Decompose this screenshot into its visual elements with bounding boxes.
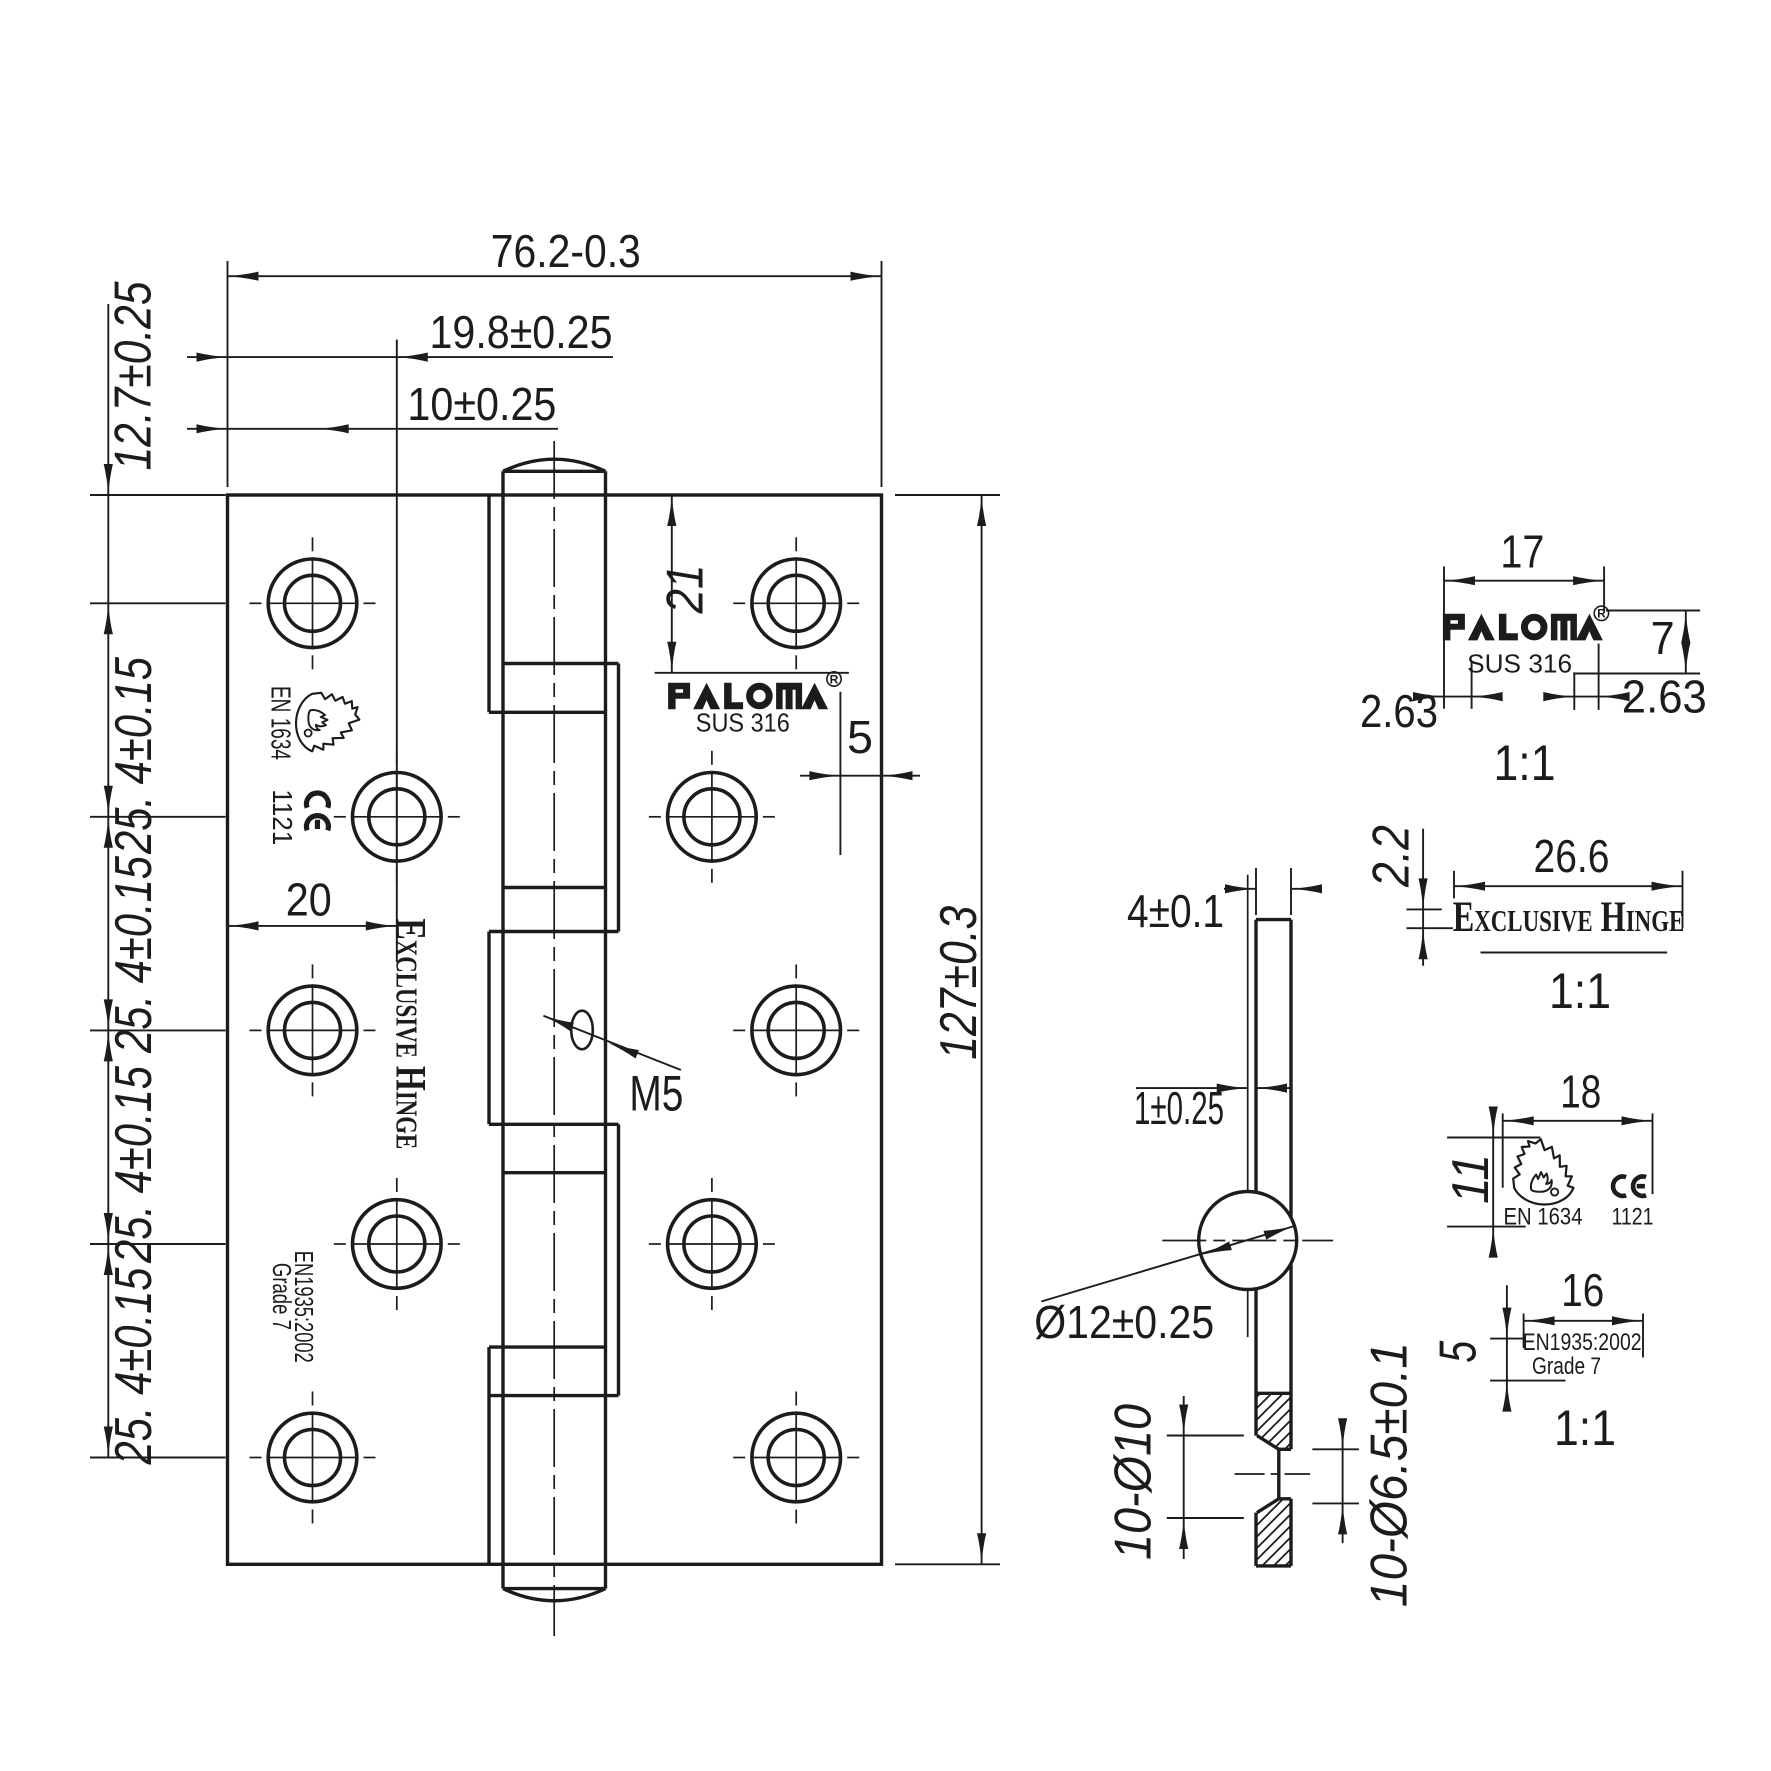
- EXCLUSIVE HINGE detail: [1453, 894, 1685, 942]
- svg-text:25. 4±0.15: 25. 4±0.15: [105, 855, 163, 1054]
- dimension 11: [1447, 1137, 1540, 1139]
- svg-text:7: 7: [1651, 612, 1675, 664]
- svg-text:1:1: 1:1: [1549, 963, 1611, 1019]
- svg-text:17: 17: [1500, 526, 1544, 578]
- dimension 2.63 left: [1471, 662, 1473, 708]
- dimension 2.2: [1407, 908, 1442, 910]
- svg-text:1121: 1121: [1612, 1203, 1654, 1230]
- left leaf cutout edge middle: [487, 932, 490, 1125]
- svg-text:EN1935:2002: EN1935:2002: [1523, 1329, 1642, 1356]
- dimension 1±0.25: [1136, 1087, 1248, 1089]
- screw hole row5 left: [268, 1413, 357, 1502]
- hinge pin top cap: [503, 459, 606, 471]
- svg-text:127±0.3: 127±0.3: [930, 906, 988, 1060]
- screw hole row4 right: [668, 1200, 757, 1289]
- hatch upper region: [1141, 1385, 1499, 1455]
- underline: [1481, 952, 1668, 954]
- hinge front view: plate outline: [228, 495, 882, 1564]
- countersink break line: [1256, 1392, 1291, 1395]
- svg-text:M5: M5: [629, 1066, 683, 1122]
- svg-text:Exclusive Hinge: Exclusive Hinge: [386, 918, 434, 1149]
- dimension 5: [839, 692, 841, 855]
- dimension 10-Ø10: [1167, 1435, 1244, 1437]
- svg-text:12.7±0.25: 12.7±0.25: [105, 281, 163, 471]
- svg-text:11: 11: [1442, 1154, 1500, 1204]
- svg-text:1:1: 1:1: [1554, 1400, 1616, 1456]
- svg-text:18: 18: [1560, 1066, 1601, 1118]
- dimension Ø12±0.25 leader: [1041, 1226, 1294, 1302]
- svg-text:2.2: 2.2: [1363, 825, 1421, 888]
- dimension 2.63 right: [1573, 672, 1575, 710]
- left leaf cutout edge bottom: [487, 1347, 490, 1564]
- M5 leader line: [543, 1016, 681, 1070]
- side view: knuckle centerline horizontal: [1162, 1240, 1333, 1242]
- svg-text:2.63: 2.63: [1622, 670, 1707, 722]
- svg-text:Grade 7: Grade 7: [267, 1263, 297, 1330]
- hole cylinder: [1277, 1449, 1280, 1499]
- dimension 20: [229, 925, 397, 927]
- svg-text:5: 5: [847, 711, 873, 763]
- registered mark: [827, 672, 841, 687]
- screw hole row1 left: [268, 559, 357, 648]
- svg-text:26.6: 26.6: [1534, 830, 1610, 882]
- dimension 7: [1606, 610, 1700, 612]
- pin centerline: [553, 441, 555, 1636]
- svg-text:Exclusive Hinge: Exclusive Hinge: [1453, 894, 1685, 942]
- svg-text:1121: 1121: [267, 789, 298, 845]
- plate-top extension left: [90, 494, 226, 496]
- svg-text:20: 20: [286, 874, 332, 926]
- dimension 5 detail: [1490, 1338, 1524, 1340]
- dimension 10-Ø6.5±0.1: [1312, 1448, 1359, 1450]
- svg-text:10-Ø10: 10-Ø10: [1104, 1404, 1162, 1560]
- flame logo on plate (rotated): [296, 693, 359, 751]
- svg-text:25. 4±0.15: 25. 4±0.15: [105, 656, 163, 855]
- dimension 19.8±0.25: [396, 340, 398, 962]
- svg-text:5: 5: [1429, 1340, 1487, 1363]
- side view: left face: [1254, 920, 1257, 1193]
- dimension 17: [1443, 566, 1445, 708]
- side view: knuckle circle Ø12: [1199, 1192, 1297, 1290]
- screw hole row3 right: [752, 986, 841, 1075]
- svg-text:21: 21: [657, 565, 715, 615]
- svg-text:2.63: 2.63: [1360, 685, 1438, 737]
- barrel right edge: [604, 471, 607, 1588]
- screw hole row2 right: [668, 773, 757, 862]
- row 3 extension line: [90, 1029, 226, 1031]
- M5 thread ellipse: [571, 1011, 593, 1050]
- barrel left edge: [501, 471, 504, 1588]
- knuckle joints: [503, 662, 619, 665]
- svg-text:10±0.25: 10±0.25: [407, 378, 556, 430]
- screw hole row1 right: [752, 559, 841, 648]
- dimension 10±0.25: [187, 428, 558, 430]
- hatch lower region: [1141, 1492, 1509, 1572]
- bearing outer edge upper: [617, 664, 620, 932]
- screw hole row3 left: [268, 986, 357, 1075]
- side view: knuckle centerline vertical: [1247, 875, 1249, 1193]
- dimension 16: [1523, 1314, 1525, 1349]
- svg-text:4±0.1: 4±0.1: [1127, 885, 1224, 937]
- hinge pin bottom cap: [503, 1589, 606, 1601]
- svg-text:16: 16: [1561, 1264, 1604, 1316]
- dimension 18: [1502, 1113, 1504, 1187]
- screw hole row4 left: [353, 1200, 442, 1289]
- screw hole row2 left: [353, 773, 442, 862]
- countersink cone edges: [1257, 1436, 1279, 1450]
- dimension 4±0.1: [1255, 868, 1257, 915]
- svg-text:25. 4±0.15: 25. 4±0.15: [105, 1267, 163, 1466]
- row 5 extension line: [90, 1457, 226, 1459]
- svg-text:19.8±0.25: 19.8±0.25: [430, 306, 613, 358]
- row 2 extension line: [90, 816, 226, 818]
- svg-text:EN 1634: EN 1634: [265, 686, 296, 760]
- svg-text:10-Ø6.5±0.1: 10-Ø6.5±0.1: [1361, 1342, 1419, 1607]
- svg-text:SUS 316: SUS 316: [1467, 649, 1572, 679]
- svg-text:76.2-0.3: 76.2-0.3: [491, 225, 641, 277]
- svg-text:1:1: 1:1: [1494, 735, 1556, 791]
- left leaf cutout edge top: [487, 495, 490, 712]
- svg-text:1±0.25: 1±0.25: [1134, 1082, 1224, 1134]
- row 1 extension line: [90, 602, 226, 604]
- dimension 127±0.3: [895, 494, 1000, 496]
- svg-text:Grade 7: Grade 7: [1532, 1353, 1601, 1380]
- dimension 76.2-0.3: [227, 261, 229, 487]
- flame logo detail: [1513, 1139, 1573, 1204]
- 12.7 top arrow: [104, 464, 113, 495]
- svg-text:25. 4±0.15: 25. 4±0.15: [105, 1065, 163, 1264]
- PALOMA logo on plate: [668, 683, 828, 710]
- bearing outer edge lower: [617, 1124, 620, 1395]
- EXCLUSIVE HINGE on plate: [386, 918, 434, 1149]
- svg-text:SUS 316: SUS 316: [696, 708, 790, 738]
- detail view: PALOMA logo 1:1: [1443, 614, 1603, 641]
- row 4 extension line: [90, 1243, 226, 1245]
- CE mark detail: [1613, 1177, 1646, 1196]
- dimension 21: [655, 672, 849, 674]
- side view: top and bottom edges: [1256, 918, 1291, 921]
- countersink centerline: [1235, 1473, 1311, 1475]
- svg-text:Ø12±0.25: Ø12±0.25: [1034, 1296, 1214, 1348]
- screw hole row5 right: [752, 1413, 841, 1502]
- left dimension chain line: [107, 304, 109, 1458]
- CE mark on plate (rotated): [306, 793, 328, 830]
- dimension 26.6: [1453, 871, 1455, 899]
- side view: right face: [1289, 920, 1292, 1217]
